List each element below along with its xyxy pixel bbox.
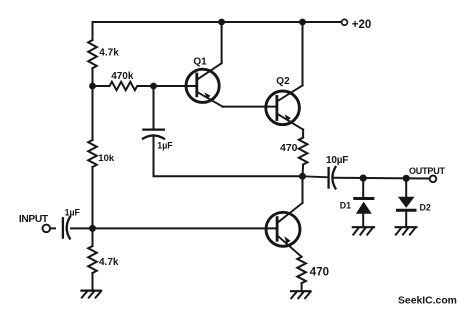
wire: node A to 10k xyxy=(92,86,94,140)
node B (input junction) xyxy=(89,225,96,232)
node C (Q1 base / bootstrap junction) xyxy=(150,83,157,90)
wire: 10k bottom to input node xyxy=(92,167,94,228)
ground G1 (below R3) xyxy=(82,291,102,298)
transistor Q2 xyxy=(266,85,303,129)
wire: output line from cap to terminal xyxy=(334,177,429,180)
ground G4 (below D2) xyxy=(396,227,417,234)
capacitor C2 1uF (bootstrap) xyxy=(143,130,164,139)
svg-text:1µF: 1µF xyxy=(65,207,81,217)
wire: R1 bottom to node A xyxy=(92,68,94,86)
svg-text:4.7k: 4.7k xyxy=(99,48,119,59)
resistor R6 470 (Q3 emitter) xyxy=(297,257,306,283)
capacitor C1 1uF (input) xyxy=(56,217,70,240)
power terminal +20 xyxy=(342,19,348,25)
svg-text:4.7k: 4.7k xyxy=(99,257,119,268)
svg-text:+20: +20 xyxy=(352,19,372,31)
capacitor C3 10uF (output coupling) xyxy=(303,167,336,188)
wire: R6 to ground xyxy=(301,283,303,291)
ground G2 (below R6) xyxy=(291,291,311,298)
junction dot Q1 collector on rail xyxy=(218,19,225,26)
wire: input line to Q3 base xyxy=(50,227,277,229)
diode D2 (cathode down) xyxy=(397,178,415,227)
svg-text:470: 470 xyxy=(310,266,329,278)
output terminal xyxy=(430,176,437,183)
svg-text:INPUT: INPUT xyxy=(19,214,49,225)
svg-text:470k: 470k xyxy=(111,71,134,82)
resistor R2 10k (left, vertical) xyxy=(88,140,97,167)
svg-text:Q2: Q2 xyxy=(276,76,290,87)
wire: R5 to output node xyxy=(302,165,305,177)
svg-text:1µF: 1µF xyxy=(157,140,173,150)
svg-text:D2: D2 xyxy=(420,202,431,212)
wire: bootstrap cap down and right to output node xyxy=(154,136,303,177)
node D (output node junction) xyxy=(299,173,306,180)
wire: Q1 emitter to Q2 base xyxy=(223,106,277,108)
junction dot Q2 collector on rail xyxy=(299,19,306,26)
svg-text:SeekIC.com: SeekIC.com xyxy=(398,296,457,307)
wire: output node down to Q3 collector xyxy=(302,176,304,203)
wire: Q2 collector to top rail xyxy=(302,22,304,85)
wire: input node to R3 xyxy=(92,228,94,246)
wire: R3 to ground xyxy=(92,273,94,291)
svg-text:OUTPUT: OUTPUT xyxy=(409,166,446,176)
ground G3 (below D1) xyxy=(353,227,374,234)
node A (junction 4.7k/470k/10k) xyxy=(89,83,96,90)
resistor R5 470 (Q2 emitter) xyxy=(299,138,308,165)
wire: Q2 emitter to R5 xyxy=(302,130,304,138)
resistor R1 4.7k (top left, vertical) xyxy=(88,40,97,68)
svg-text:Q1: Q1 xyxy=(193,57,207,68)
junction dot D2 xyxy=(403,175,410,182)
transistor Q1 xyxy=(186,63,223,106)
wire: node C down to bootstrap cap xyxy=(153,86,155,130)
svg-text:470: 470 xyxy=(280,142,298,154)
resistor R3 4.7k (bottom left, vertical) xyxy=(88,246,97,273)
resistor R4 470k (horizontal) xyxy=(93,82,197,90)
junction dot D1 xyxy=(360,175,367,182)
wire: Q1 collector to top rail xyxy=(221,22,223,63)
diode D1 (cathode up) xyxy=(355,178,373,227)
svg-text:D1: D1 xyxy=(340,200,351,210)
svg-text:10µF: 10µF xyxy=(326,155,348,166)
input terminal xyxy=(43,225,51,233)
transistor Q3 xyxy=(266,203,303,257)
svg-text:10k: 10k xyxy=(98,153,115,164)
wire: top +20 supply rail xyxy=(93,21,342,23)
wire: left bias rail top segment xyxy=(92,22,94,40)
